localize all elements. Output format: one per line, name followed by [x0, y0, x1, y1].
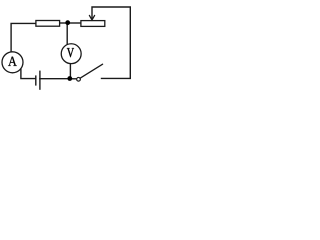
- wire battery to node B: [40, 78, 70, 80]
- wire resistor R1 right to node A: [60, 22, 68, 24]
- wire node B to switch pivot: [70, 78, 77, 80]
- node A junction dot: [65, 20, 70, 25]
- wire voltmeter bottom to node B: [69, 64, 71, 79]
- wire ammeter bottom to battery: [21, 70, 36, 79]
- wire top-left corner down to ammeter: [11, 23, 36, 52]
- ammeter label A: [8, 57, 17, 66]
- voltmeter label V: [67, 48, 74, 57]
- voltmeter circle: [61, 44, 81, 64]
- rheostat R2 wiper arrowhead: [89, 15, 94, 20]
- node B junction dot: [67, 76, 72, 81]
- wire node A to rheostat R2: [68, 22, 81, 24]
- battery cell long plate: [39, 71, 41, 90]
- resistor R1: [36, 21, 60, 27]
- battery cell short plate: [35, 75, 37, 85]
- switch S1 pivot circle: [77, 77, 81, 81]
- wire node A down to voltmeter top: [66, 23, 68, 45]
- rheostat R2 box: [81, 21, 105, 27]
- ammeter circle: [2, 52, 23, 73]
- wire rheostat wiper riser, top run, right side, bottom right run: [92, 7, 130, 78]
- switch S1 blade (open): [80, 64, 103, 78]
